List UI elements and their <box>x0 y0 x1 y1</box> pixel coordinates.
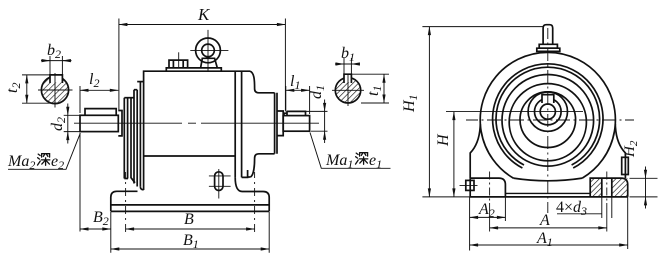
dim b2 <box>41 56 72 75</box>
right foot <box>235 177 269 211</box>
left flare <box>470 124 480 178</box>
dim B1 <box>111 212 269 253</box>
end view centerlines <box>446 28 634 213</box>
skirt sag between feet <box>513 178 582 181</box>
hole edge extensions <box>602 197 612 218</box>
left foot <box>111 191 138 211</box>
shaft circle <box>535 98 562 125</box>
leader Ma1 <box>310 133 391 169</box>
dim d2 <box>64 104 81 144</box>
horizontal chain line <box>466 119 634 121</box>
pad on body top <box>166 68 221 72</box>
base slab <box>111 205 269 212</box>
frame seam arc B <box>496 67 600 165</box>
dim d1 <box>306 100 328 144</box>
dim H <box>453 112 455 197</box>
base bottom line <box>470 196 628 198</box>
right flare <box>615 124 625 178</box>
dim b1 <box>335 58 360 76</box>
stud on top <box>537 25 560 52</box>
key in end view <box>542 95 554 103</box>
base line between feet <box>505 192 590 194</box>
dim t2 <box>22 75 57 103</box>
outer frame circle <box>480 52 615 178</box>
right shaft d1 <box>283 116 309 132</box>
svg-text:K: K <box>197 5 211 24</box>
dim A <box>490 227 607 229</box>
section circle shaft 1 <box>332 74 364 106</box>
svg-text:H: H <box>435 133 452 147</box>
frame seam arc A <box>493 64 603 168</box>
foot hole centerline right <box>254 172 256 232</box>
grease bolt on left foot <box>460 180 478 190</box>
svg-text:A: A <box>539 212 550 229</box>
section circle shaft 2 <box>38 73 73 108</box>
right foot end view (sectioned) <box>590 178 628 197</box>
bearing boss <box>277 111 283 136</box>
shaft center solid line <box>446 111 583 113</box>
dim B2 <box>80 133 111 232</box>
end ring flange right <box>235 71 241 177</box>
dim K <box>119 19 286 112</box>
leader Ma2 <box>8 133 80 169</box>
dim l1 <box>286 86 310 114</box>
hub circle <box>528 92 567 131</box>
foot hole centerline right end view <box>606 172 608 232</box>
bracket circle D <box>509 84 586 161</box>
vertical centerline <box>547 28 549 213</box>
centerline <box>74 122 319 124</box>
eyebolt U1 <box>190 30 228 72</box>
bracket circle C <box>502 75 594 167</box>
dim l2 <box>80 86 118 113</box>
shaft left (second shaft extension d2) <box>80 115 118 131</box>
spigot circle E <box>520 92 576 148</box>
drive end bell <box>248 71 277 177</box>
collar at left shaft shoulder <box>118 111 122 136</box>
key on right shaft <box>284 111 306 115</box>
dim H1 <box>422 27 543 197</box>
motor body <box>144 71 250 190</box>
bore circle <box>540 104 555 119</box>
dim t1 <box>352 74 389 103</box>
key on left shaft <box>85 109 116 116</box>
tab on right flare <box>622 157 629 174</box>
dim B <box>126 228 255 230</box>
svg-text:B: B <box>184 211 194 228</box>
left foot end view <box>470 178 505 197</box>
drain plug <box>209 169 231 199</box>
fan cowl fins <box>124 82 143 190</box>
dim A2 <box>470 197 506 251</box>
leader 4xd3 <box>557 213 602 215</box>
dim A1 <box>470 197 628 249</box>
foot hole centerline left <box>125 172 127 232</box>
nameplate block <box>169 52 188 68</box>
foot hole centerline left end view <box>489 172 491 232</box>
lug under ring <box>242 170 248 177</box>
dim H2 <box>630 167 658 209</box>
